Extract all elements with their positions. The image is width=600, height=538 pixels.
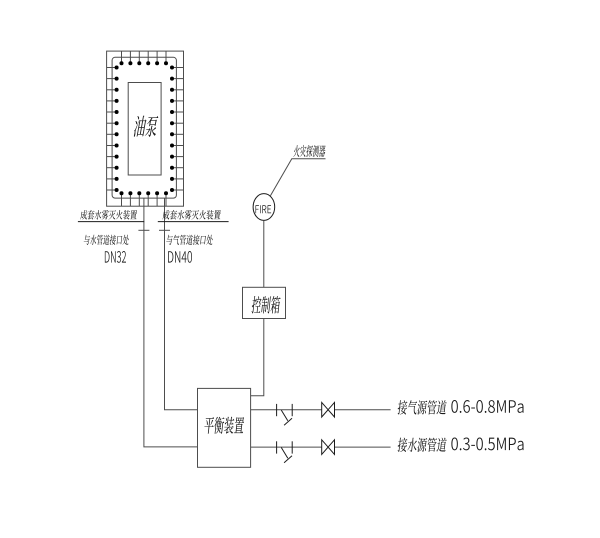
- nozzles bottom row: [120, 191, 169, 206]
- label left: 成套水雾灭火装置: [80, 210, 137, 220]
- gate valve: [322, 440, 328, 455]
- underline left label: [78, 221, 144, 223]
- union tick on gas pipe: [159, 229, 170, 231]
- pipe line: [251, 409, 391, 411]
- label 平衡装置: [204, 417, 245, 434]
- label right: 成套水雾灭火装置: [162, 210, 221, 220]
- pipe line: [251, 446, 391, 448]
- label 与气管道接口处: [166, 235, 213, 245]
- water supply pipe (DN32): [144, 198, 198, 447]
- union tick on water pipe: [138, 229, 149, 231]
- label 接气源管道: [397, 400, 447, 414]
- nozzles left column: [107, 66, 119, 193]
- oil pump rectangle: [128, 83, 161, 176]
- label 控制箱: [251, 296, 281, 314]
- label 火灾探测器: [293, 145, 326, 157]
- leader line to detector label: [270, 159, 325, 196]
- nozzles top row: [120, 51, 169, 65]
- gate valve: [322, 402, 328, 417]
- fire detector FIRE circle: [253, 194, 275, 221]
- label 油泵 (oil pump): [133, 116, 159, 137]
- Y-strainer: [277, 441, 293, 462]
- balance device box: [198, 388, 251, 467]
- spray pipe ring: [112, 57, 176, 198]
- label 0.6-0.8MPa: [451, 400, 523, 413]
- enclosure outer rectangle: [107, 51, 184, 206]
- underline right label: [158, 221, 229, 223]
- wire detector to control box: [263, 220, 265, 287]
- wire control box to balance device: [251, 319, 264, 396]
- control box: [243, 287, 286, 318]
- label DN32: [105, 251, 126, 263]
- Y-strainer: [277, 404, 293, 425]
- label DN40: [168, 251, 192, 263]
- label 接水源管道: [397, 438, 447, 452]
- label 0.3-0.5MPa: [451, 437, 523, 450]
- label 与水管道接口处: [83, 235, 129, 245]
- nozzles right column: [170, 66, 184, 193]
- gas supply pipe (DN40): [165, 198, 198, 410]
